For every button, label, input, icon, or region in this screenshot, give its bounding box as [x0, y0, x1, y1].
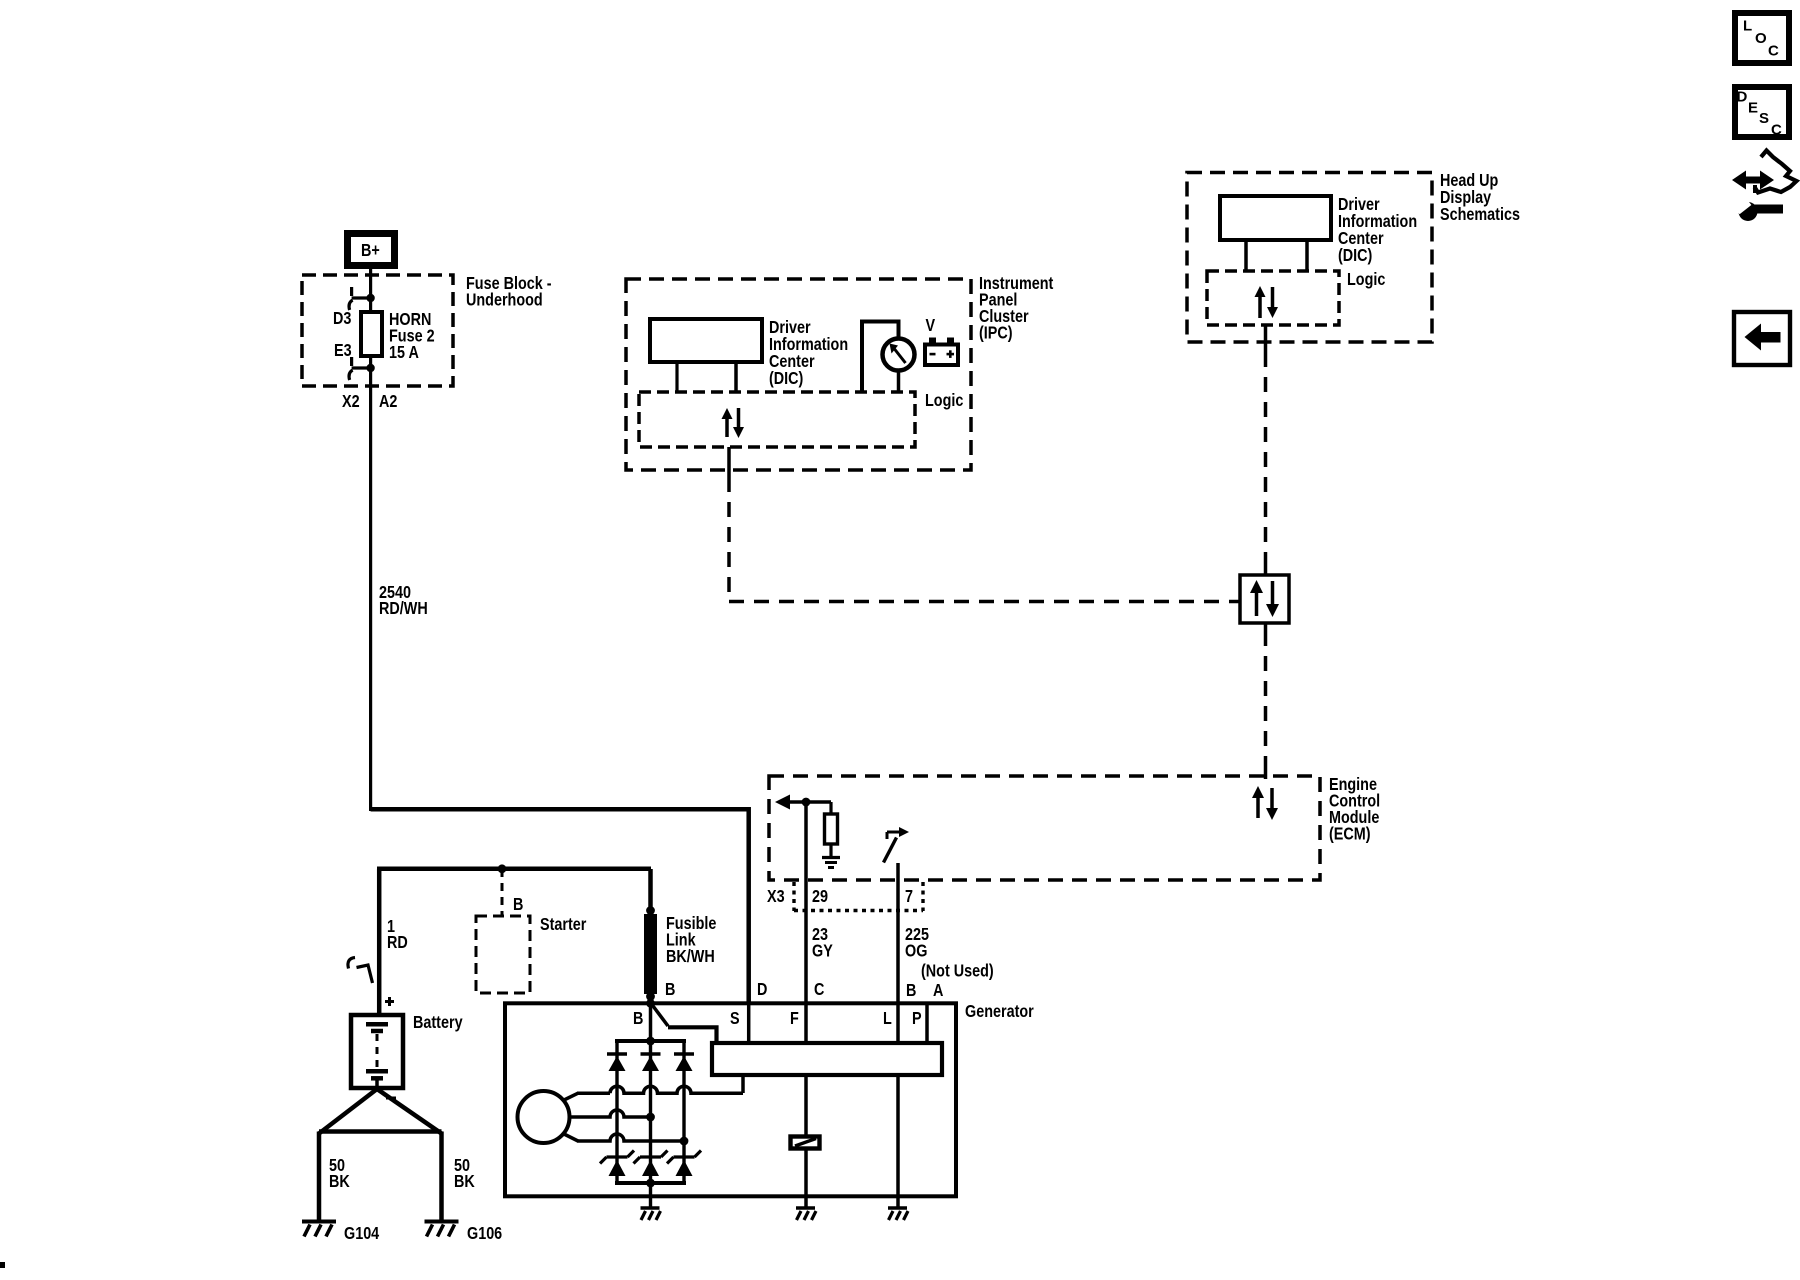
rotor field circle: [518, 1091, 570, 1143]
pin label 7: [905, 887, 913, 907]
instrument panel cluster dashed box: [626, 279, 971, 470]
svg-text:BK: BK: [454, 1172, 475, 1192]
svg-text:A: A: [933, 981, 944, 1001]
svg-text:B: B: [633, 1009, 644, 1029]
svg-text:Underhood: Underhood: [466, 290, 543, 310]
label Logic in HUD: [1347, 270, 1385, 290]
svg-text:E: E: [1748, 100, 1758, 117]
voltmeter V1 circle: [883, 339, 915, 371]
svg-text:(DIC): (DIC): [1338, 246, 1372, 266]
wire HUD DIC right leg: [1305, 240, 1309, 271]
ground G104: [302, 1220, 336, 1224]
wire tick entering ECM: [1264, 766, 1268, 779]
svg-text:RD/WH: RD/WH: [379, 599, 428, 619]
wire voltmeter to logic: [897, 371, 901, 393]
generator box: [505, 1003, 956, 1196]
terminal label A top: [933, 981, 944, 1001]
pin label S inside: [730, 1009, 740, 1029]
battery icon B1 in IPC: [925, 345, 958, 366]
svg-text:BK: BK: [329, 1172, 350, 1192]
rectifier bottom rail: [615, 1181, 686, 1185]
connector E3 symbol: [352, 366, 369, 369]
node junction generator B terminal: [646, 999, 655, 1008]
svg-text:V: V: [926, 316, 936, 336]
terminal label C top: [814, 980, 825, 1000]
svg-text:Schematics: Schematics: [1440, 205, 1520, 225]
wire IPC to serial data bus (dashed): [727, 477, 731, 602]
svg-text:D: D: [757, 980, 768, 1000]
wire feed to fusible link: [648, 869, 653, 911]
label 225 OG: [905, 925, 929, 961]
wire stub below serial data box: [1264, 623, 1268, 631]
pin label P inside: [912, 1009, 922, 1029]
wire connector to fuse F2: [369, 298, 372, 313]
ground G106: [425, 1220, 459, 1224]
wire B+ into fuse block: [369, 266, 372, 298]
svg-text:C: C: [1771, 122, 1782, 139]
terminal label B top: [665, 980, 676, 1000]
svg-text:(Not Used): (Not Used): [921, 961, 994, 981]
pin label B inside: [633, 1009, 644, 1029]
label Engine Control Module (ECM): [1329, 775, 1380, 844]
label battery plus: [385, 1000, 394, 1003]
label A2: [379, 392, 397, 412]
label (Not Used): [921, 961, 994, 981]
wire fusible link to generator B: [649, 996, 653, 1041]
svg-text:X3: X3: [767, 887, 785, 907]
svg-text:29: 29: [812, 887, 828, 907]
wire jog to generator D terminal: [371, 809, 749, 1003]
wire stator phase 2: [570, 1110, 651, 1117]
svg-text:Logic: Logic: [1347, 270, 1385, 290]
label 1 RD: [387, 917, 408, 953]
label D3: [333, 309, 351, 329]
icon DESC box: [1735, 87, 1789, 137]
ground generator L: [888, 1206, 907, 1210]
label Starter: [540, 915, 587, 935]
dashed wire serial box to ECM: [1264, 631, 1268, 766]
logic dashed box in IPC: [639, 392, 915, 447]
svg-text:(IPC): (IPC): [979, 323, 1013, 343]
label G106: [467, 1224, 502, 1244]
connector X3 dotted box: [792, 882, 795, 911]
wire 2540 RD/WH vertical from fuse block: [369, 368, 372, 811]
label 2540 RD/WH: [379, 583, 428, 619]
pin label F inside: [790, 1009, 799, 1029]
node junction phase3 to diode column 3: [680, 1137, 689, 1146]
field element F1 (slashed box): [791, 1137, 820, 1149]
svg-text:D3: D3: [333, 309, 351, 329]
switch S1 in ECM (pin 7): [887, 831, 903, 834]
svg-text:G104: G104: [344, 1224, 379, 1244]
wire battery positive vertical 1 RD: [377, 869, 382, 1013]
svg-text:Starter: Starter: [540, 915, 587, 935]
wire battery positive feed horizontal: [377, 867, 651, 872]
battery current sensor clip symbol: [348, 958, 355, 969]
rectifier top rail: [615, 1039, 686, 1043]
serial data up arrow in IPC logic: [725, 417, 729, 437]
svg-text:L: L: [1743, 18, 1752, 35]
node junction B to rectifier: [646, 1037, 655, 1046]
pin label L inside: [883, 1009, 892, 1029]
diode column 2: [649, 1041, 652, 1196]
wire stator phase 1: [563, 1093, 578, 1100]
icon schematic navigation (arrows and wrench): [1741, 177, 1765, 184]
svg-text:(DIC): (DIC): [769, 369, 803, 389]
svg-text:7: 7: [905, 887, 913, 907]
diode D2: [641, 1052, 661, 1056]
wire stator phase 3: [563, 1134, 578, 1142]
label V: [926, 316, 936, 336]
label Logic in IPC: [925, 391, 963, 411]
serial data interface box U1: [1240, 575, 1289, 623]
label Battery: [413, 1013, 463, 1033]
node junction rectifier ground: [646, 1179, 655, 1188]
diode column 1: [615, 1041, 618, 1183]
serial data bus horizontal dashed wire: [729, 600, 1240, 604]
wire stator sense to regulator: [741, 1077, 745, 1093]
fuse block dashed box (Fuse Block - Underhood): [302, 275, 453, 386]
wire IPC logic to serial data bus (solid): [727, 447, 731, 477]
serial data down arrow in HUD logic: [1271, 287, 1275, 309]
down arrow in serial data box: [1271, 581, 1275, 606]
label Instrument Panel Cluster (IPC): [979, 274, 1054, 343]
wire HUD to serial data box (dashed): [1264, 352, 1268, 564]
wire rectifier to ground: [649, 1196, 652, 1208]
DIC display rectangle in HUD: [1220, 196, 1331, 240]
wire fuse to connector E3: [369, 356, 372, 368]
label Generator: [965, 1002, 1034, 1022]
diode column 3: [682, 1041, 685, 1183]
wire switch to pin 7: [896, 863, 900, 880]
signal arrow to ECM logic (left): [788, 800, 831, 804]
wire DIC right leg: [734, 362, 738, 392]
label E3: [334, 341, 352, 361]
wire HUD logic to bus (solid): [1264, 325, 1268, 352]
dashed stub to starter: [501, 869, 504, 916]
svg-text:X2: X2: [342, 392, 360, 412]
diode D1: [607, 1052, 627, 1056]
svg-text:S: S: [730, 1009, 740, 1029]
connector D3 symbol: [352, 296, 369, 299]
svg-text:OG: OG: [905, 941, 927, 961]
head up display dashed box: [1187, 173, 1432, 343]
wire brush diagonal B to regulator S: [652, 1004, 669, 1026]
ground generator rectifier: [641, 1206, 660, 1210]
label Fuse Block - Underhood: [466, 274, 552, 310]
svg-text:B: B: [906, 981, 917, 1001]
label G104: [344, 1224, 379, 1244]
label Fusible Link BK/WH: [666, 914, 716, 967]
wire P cell partition: [925, 1003, 929, 1041]
diode D3: [674, 1052, 694, 1056]
power terminal B+: [348, 234, 395, 266]
wire DIC left leg: [675, 362, 678, 392]
icon back arrow box: [1734, 312, 1790, 365]
voltmeter bracket wire: [862, 322, 899, 393]
svg-text:B+: B+: [361, 241, 380, 261]
label Driver Information Center (DIC) in HUD: [1338, 195, 1417, 266]
svg-text:Generator: Generator: [965, 1002, 1034, 1022]
wire 225 OG pin7 to generator B: [896, 880, 900, 1003]
fusible link BK/WH: [646, 906, 655, 915]
label 23 GY: [812, 925, 833, 961]
icon LOC box: [1735, 13, 1789, 63]
svg-text:GY: GY: [812, 941, 833, 961]
voltage regulator bar: [712, 1043, 942, 1075]
svg-text:C: C: [1768, 43, 1779, 60]
terminal label B2 top: [906, 981, 917, 1001]
svg-text:Logic: Logic: [925, 391, 963, 411]
label X3: [767, 887, 785, 907]
wire F cell partition (C terminal): [804, 1003, 808, 1041]
svg-text:S: S: [1759, 110, 1769, 127]
node junction pin29 feed: [802, 798, 811, 807]
label HORN Fuse 2 15 A: [389, 310, 435, 363]
pin label 29: [812, 887, 828, 907]
wire field to ground: [804, 1148, 808, 1208]
node junction starter feed: [498, 864, 507, 873]
terminal label D top: [757, 980, 768, 1000]
wire 50 BK left: [317, 1132, 322, 1222]
up arrow in ECM: [1256, 796, 1260, 818]
label B starter terminal: [513, 895, 524, 915]
wire HUD DIC left leg: [1244, 240, 1248, 271]
logic dashed box in HUD: [1207, 271, 1339, 325]
zener diode D5: [640, 1155, 661, 1158]
resistor R1 in ECM: [829, 802, 832, 814]
wire regulator F to field coil: [804, 1077, 808, 1135]
svg-text:A2: A2: [379, 392, 397, 412]
starter dashed box: [476, 916, 530, 993]
wire 50 BK right: [439, 1132, 444, 1222]
serial data up arrow in HUD logic: [1258, 295, 1262, 318]
svg-text:D: D: [1737, 89, 1748, 106]
svg-text:BK/WH: BK/WH: [666, 946, 715, 966]
battery BAT1: [351, 1015, 403, 1088]
svg-text:15 A: 15 A: [389, 343, 419, 363]
svg-text:E3: E3: [334, 341, 352, 361]
node junction phase2 to diode column 2: [646, 1113, 655, 1122]
svg-text:L: L: [883, 1009, 892, 1029]
up arrow in serial data box: [1255, 591, 1259, 616]
fuse F2 HORN 15A: [361, 312, 382, 356]
label battery minus: [386, 1097, 396, 1100]
voltmeter needle: [895, 349, 906, 363]
wire 23 GY pin29 to generator C: [804, 802, 808, 1003]
svg-text:P: P: [912, 1009, 922, 1029]
label 50 BK right: [454, 1156, 475, 1192]
engine control module dashed box: [769, 776, 1320, 880]
zener diode D4: [607, 1155, 628, 1158]
label X2: [342, 392, 360, 412]
svg-text:G106: G106: [467, 1224, 502, 1244]
zener diode D6: [674, 1155, 695, 1158]
label 50 BK left: [329, 1156, 350, 1192]
label Driver Information Center (DIC) in IPC: [769, 318, 848, 389]
down arrow in ECM: [1270, 788, 1274, 810]
svg-text:O: O: [1755, 30, 1767, 47]
svg-text:B: B: [513, 895, 524, 915]
wire regulator L to ground: [896, 1077, 900, 1208]
ground in ECM: [822, 856, 840, 859]
svg-text:C: C: [814, 980, 825, 1000]
svg-text:RD: RD: [387, 933, 408, 953]
page corner mark: [0, 1262, 5, 1268]
wire battery negative Y-split: [319, 1089, 377, 1134]
wire stub above serial data box: [1264, 564, 1268, 575]
wire S cell partition (D terminal): [747, 1003, 751, 1041]
svg-text:F: F: [790, 1009, 799, 1029]
wire L cell partition (B2 terminal): [896, 1003, 900, 1041]
label Head Up Display Schematics: [1440, 171, 1520, 225]
DIC display rectangle in IPC: [650, 319, 762, 362]
svg-text:Battery: Battery: [413, 1013, 463, 1033]
svg-text:B: B: [665, 980, 676, 1000]
ground generator field: [796, 1206, 815, 1210]
serial data down arrow in IPC logic: [737, 408, 741, 429]
svg-text:(ECM): (ECM): [1329, 824, 1371, 844]
